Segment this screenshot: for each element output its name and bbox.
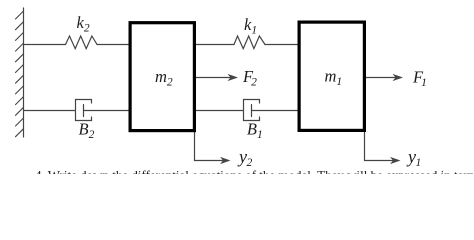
- svg-text:4. Write down the differentia: 4. Write down the differential equations…: [35, 168, 474, 175]
